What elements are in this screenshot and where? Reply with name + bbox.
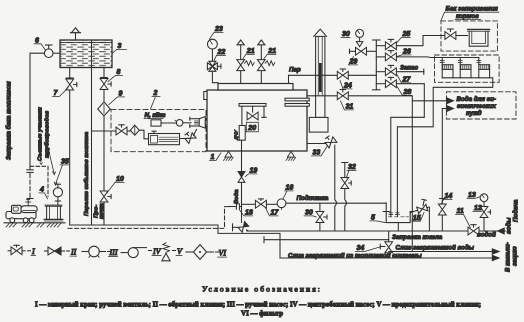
three-way gauge valve 22	[207, 61, 221, 71]
svg-text:21: 21	[246, 48, 255, 55]
boiler 1 body	[207, 90, 307, 151]
label 21 left	[243, 48, 255, 59]
drain line fuel system	[280, 257, 493, 259]
legend symbol III hand pump	[82, 246, 111, 257]
label 3	[113, 43, 127, 53]
boiler wall tab	[204, 92, 207, 100]
drain valve 34	[380, 242, 392, 253]
svg-text:Вода: Вода	[234, 189, 240, 204]
label 18	[240, 210, 253, 217]
hand pump 35	[53, 184, 62, 205]
steam riser	[288, 75, 290, 83]
tank vent	[71, 28, 81, 40]
valve 14 column	[438, 109, 446, 232]
wire pump to valve	[180, 138, 187, 140]
label 16	[283, 185, 293, 199]
svg-text:27: 27	[402, 77, 412, 84]
feed funnel 5	[383, 203, 413, 231]
wire to fuel pump	[139, 130, 148, 139]
svg-text:3: 3	[118, 43, 122, 50]
svg-text:13: 13	[468, 192, 476, 199]
label 9	[109, 91, 125, 105]
level valve 20	[247, 106, 258, 120]
label 7	[53, 88, 69, 97]
svg-text:1: 1	[211, 154, 215, 161]
svg-text:31: 31	[346, 104, 354, 111]
fill line texts	[392, 232, 496, 242]
svg-text:5: 5	[371, 215, 375, 222]
boiler support left	[224, 152, 234, 161]
fill valve 11	[468, 225, 479, 235]
svg-text:18: 18	[245, 210, 253, 217]
heater plates	[285, 98, 309, 106]
hot water line	[307, 95, 337, 97]
svg-text:19: 19	[250, 168, 258, 175]
boiler drain valve 32	[341, 163, 351, 232]
fuel truck	[6, 200, 37, 223]
svg-text:Бак запаривания: Бак запаривания	[446, 6, 499, 13]
tank outlet stub left	[66, 68, 73, 80]
make-up pipe to funnel	[286, 202, 386, 204]
svg-text:8: 8	[117, 69, 121, 76]
pipe valve 22 to drum	[212, 71, 218, 83]
svg-text:33: 33	[313, 150, 321, 157]
svg-text:15: 15	[413, 215, 421, 222]
svg-text:2: 2	[153, 90, 158, 97]
label 4	[39, 187, 48, 199]
label 11	[456, 208, 471, 228]
safety valve 21 left	[237, 40, 254, 84]
hygiene water arrow top	[447, 98, 454, 104]
dashed flushing line	[68, 207, 229, 229]
hand valve 6	[44, 45, 53, 58]
water level device plate	[239, 104, 266, 126]
steamer feeder 3	[477, 58, 490, 78]
steam line to manifold	[348, 74, 376, 76]
label N kWt	[144, 112, 166, 119]
chimney tube	[316, 36, 325, 117]
hygiene text	[457, 96, 497, 117]
burner inlet valve	[116, 125, 127, 135]
pipe tank filling	[30, 53, 60, 169]
removable joint break	[27, 170, 33, 173]
svg-text:N, кВт: N, кВт	[145, 112, 167, 119]
steam valve 26	[376, 51, 479, 61]
fuel tank 3	[60, 40, 112, 68]
svg-text:11: 11	[457, 208, 464, 215]
svg-text:III: III	[109, 248, 118, 257]
label 1	[210, 153, 222, 161]
label 2	[151, 90, 161, 109]
hygiene water dashed box	[446, 92, 516, 119]
service tank 4	[44, 205, 63, 221]
svg-text:кормов: кормов	[456, 13, 479, 20]
svg-text:Слив загрязненной воды: Слив загрязненной воды	[396, 245, 475, 252]
make-up line	[242, 199, 278, 208]
svg-text:Заправка котла: Заправка котла	[392, 234, 443, 241]
svg-text:Заправка бака топливом: Заправка бака топливом	[6, 81, 13, 160]
label 32	[346, 164, 356, 178]
water supply arrow	[498, 228, 505, 234]
dirty water drain line	[389, 251, 493, 253]
drain branch from fill line	[388, 231, 390, 242]
steamer condensate collector	[397, 78, 492, 217]
svg-text:Вода для ги-: Вода для ги-	[457, 96, 496, 103]
blow-off valve 29	[350, 47, 377, 55]
label 27	[397, 75, 411, 84]
water pipe down from boiler	[241, 140, 243, 171]
steaming tank valve	[445, 29, 468, 39]
svg-text:Условные обозначения:: Условные обозначения:	[202, 285, 322, 294]
hot water valve 31	[337, 90, 348, 100]
svg-text:Запас: Запас	[400, 65, 419, 72]
steam valve 25	[376, 36, 445, 50]
gauge funnel	[356, 37, 362, 46]
label 25	[397, 31, 411, 43]
label 15	[412, 213, 424, 222]
svg-text:28: 28	[403, 89, 412, 96]
label 30 bottom	[304, 210, 316, 218]
svg-text:Подача: Подача	[513, 199, 520, 222]
steam manifold	[373, 40, 381, 90]
hot water line to hygiene	[348, 96, 447, 101]
label 14	[441, 193, 452, 205]
pipe from valve 7 down	[69, 90, 71, 225]
water pipe down	[241, 182, 243, 222]
svg-text:VI — фильтр: VI — фильтр	[241, 310, 283, 318]
svg-text:25: 25	[402, 31, 411, 38]
hygiene water arrow bottom	[447, 106, 454, 112]
label 17	[266, 209, 280, 217]
bottom fuel collector	[70, 225, 280, 258]
steam line	[289, 74, 338, 76]
label 10	[107, 176, 124, 193]
overflow pipe	[91, 40, 93, 225]
svg-text:30: 30	[342, 31, 350, 38]
pipe valve8 to filter	[103, 90, 105, 103]
svg-text:22: 22	[217, 49, 226, 56]
hygiene feed lower	[442, 108, 447, 110]
burner nozzle	[190, 117, 220, 129]
down pipe to drain	[411, 101, 413, 252]
label 34	[356, 245, 380, 252]
label 8	[108, 69, 123, 82]
legend label III	[109, 248, 118, 257]
label 21 right	[264, 48, 276, 59]
svg-text:32: 32	[348, 164, 356, 171]
legend label V	[176, 247, 183, 256]
svg-text:водой: водой	[477, 232, 496, 239]
svg-text:VI: VI	[219, 249, 227, 258]
label 24	[340, 81, 352, 90]
svg-text:20: 20	[247, 125, 256, 132]
svg-text:21: 21	[267, 48, 276, 55]
label 33	[312, 147, 328, 157]
funnel discharge pipe marks	[389, 213, 400, 215]
drain texts	[288, 245, 475, 260]
reserve valve 27	[376, 65, 424, 75]
pump outlet check valve	[183, 131, 196, 144]
legend label II	[70, 248, 77, 257]
svg-text:нужд: нужд	[466, 110, 482, 117]
legend symbol VI filter	[186, 245, 219, 260]
label 28	[397, 87, 412, 97]
boiler fill line	[247, 230, 506, 232]
svg-text:14: 14	[445, 193, 453, 200]
svg-text:Слив загрязнений из топливной: Слив загрязнений из топливной системы	[288, 252, 422, 259]
filter 9	[98, 102, 111, 116]
svg-text:34: 34	[357, 245, 365, 252]
leader arrows to removable sections	[39, 135, 56, 175]
steam valve 24	[337, 69, 348, 79]
svg-text:30: 30	[305, 210, 313, 217]
svg-text:зацию: зацию	[512, 246, 519, 266]
vertical text pumping	[94, 203, 106, 219]
shutoff valve 8	[100, 79, 111, 90]
svg-text:4: 4	[39, 187, 44, 194]
svg-text:Пар: Пар	[289, 67, 301, 74]
steaming tank vessel	[468, 29, 490, 46]
safety valve 21 right	[257, 40, 274, 84]
svg-text:I: I	[31, 247, 35, 256]
dashed removable hose to tank 4	[30, 166, 48, 196]
legend label I	[31, 247, 36, 256]
svg-text:гиенических: гиенических	[457, 103, 497, 110]
flushing connection break 18	[229, 204, 242, 209]
svg-text:IV: IV	[152, 247, 162, 256]
label 6	[34, 38, 46, 51]
fuel suction pipe	[92, 116, 117, 191]
wire valve to nozzle	[194, 130, 197, 136]
svg-text:16: 16	[286, 185, 294, 192]
dashed hose to truck	[27, 174, 33, 199]
right edge vertical texts	[505, 199, 520, 272]
steamer feeder 1	[440, 58, 453, 78]
make-up valve 30	[316, 203, 327, 231]
steamers dashed box	[435, 55, 500, 82]
legend symbol I shutoff valve	[8, 245, 31, 254]
fuel pump block	[149, 131, 180, 145]
legend symbol II check valve	[45, 247, 70, 255]
chimney base box	[309, 117, 328, 132]
steam gauge 23	[208, 39, 218, 61]
gauge 30	[356, 29, 364, 37]
svg-text:Подпитка: Подпитка	[297, 195, 329, 202]
svg-text:В канали-: В канали-	[505, 242, 512, 272]
svg-text:ДЧУ: ДЧУ	[234, 129, 240, 141]
chimney hood	[314, 29, 327, 36]
svg-text:35: 35	[61, 159, 69, 166]
level sensor DCHU	[234, 126, 246, 141]
svg-text:24: 24	[343, 83, 352, 90]
ground line	[4, 222, 65, 224]
dirty water drain arrow	[492, 249, 499, 254]
boiler feed valve 33	[307, 134, 337, 231]
svg-text:воды: воды	[506, 217, 513, 234]
label 20 box	[246, 122, 258, 132]
legend symbol IV centrifugal pump	[121, 248, 152, 258]
svg-text:Перелив избытков топлива: Перелив избытков топлива	[83, 131, 90, 216]
funnel valve 15	[410, 199, 429, 231]
feed steaming tank title	[441, 6, 499, 21]
boiler support right	[286, 152, 296, 161]
burner unit dashed box 2	[111, 109, 206, 151]
label 30	[341, 31, 350, 38]
svg-text:трубопроводов: трубопроводов	[44, 110, 51, 158]
wire fan to nozzle	[183, 122, 191, 124]
svg-text:23: 23	[214, 26, 223, 33]
svg-text:26: 26	[402, 49, 411, 56]
steam valve 28	[376, 77, 424, 216]
label 22	[214, 49, 226, 61]
check valve 19	[238, 172, 245, 183]
boiler bottom drain line	[264, 237, 389, 243]
ground hatching	[6, 223, 61, 227]
label 31	[341, 101, 354, 111]
label 12	[473, 205, 482, 212]
svg-text:Съемные участки: Съемные участки	[38, 107, 44, 161]
label 5	[370, 215, 385, 223]
water gauge 13	[480, 194, 488, 202]
pump-through valve 10	[100, 191, 111, 202]
label 19	[245, 168, 257, 177]
legend symbol V safety valve	[162, 243, 176, 261]
label 23	[210, 26, 224, 39]
drain arrow fuel system	[492, 255, 499, 260]
blower fan	[175, 120, 183, 127]
make-up pump 16	[277, 199, 286, 210]
gauge valve 12	[480, 202, 490, 231]
pipe below valve 10	[103, 202, 105, 225]
electric motor	[151, 120, 176, 126]
bottom check valve	[233, 222, 249, 232]
label 13	[467, 192, 480, 199]
boiler drum	[218, 84, 293, 91]
shutoff valve 7	[66, 79, 77, 90]
tank outlet stub right	[101, 68, 108, 79]
label 29	[349, 57, 358, 66]
label 26	[397, 49, 411, 57]
legend label VI	[218, 249, 227, 258]
svg-text:9: 9	[119, 91, 123, 98]
steamer feeder 2	[458, 58, 471, 78]
label 35	[54, 159, 69, 186]
svg-text:12: 12	[474, 205, 482, 212]
svg-text:17: 17	[271, 210, 280, 217]
feed steaming dashed box	[441, 21, 497, 51]
legend label IV	[152, 247, 162, 256]
wire	[127, 130, 131, 132]
svg-text:I — запорный кран; ручной вент: I — запорный кран; ручной вентиль; II — …	[35, 301, 481, 309]
svg-text:10: 10	[116, 176, 124, 183]
svg-text:II: II	[70, 248, 77, 257]
burner filter	[130, 125, 139, 135]
